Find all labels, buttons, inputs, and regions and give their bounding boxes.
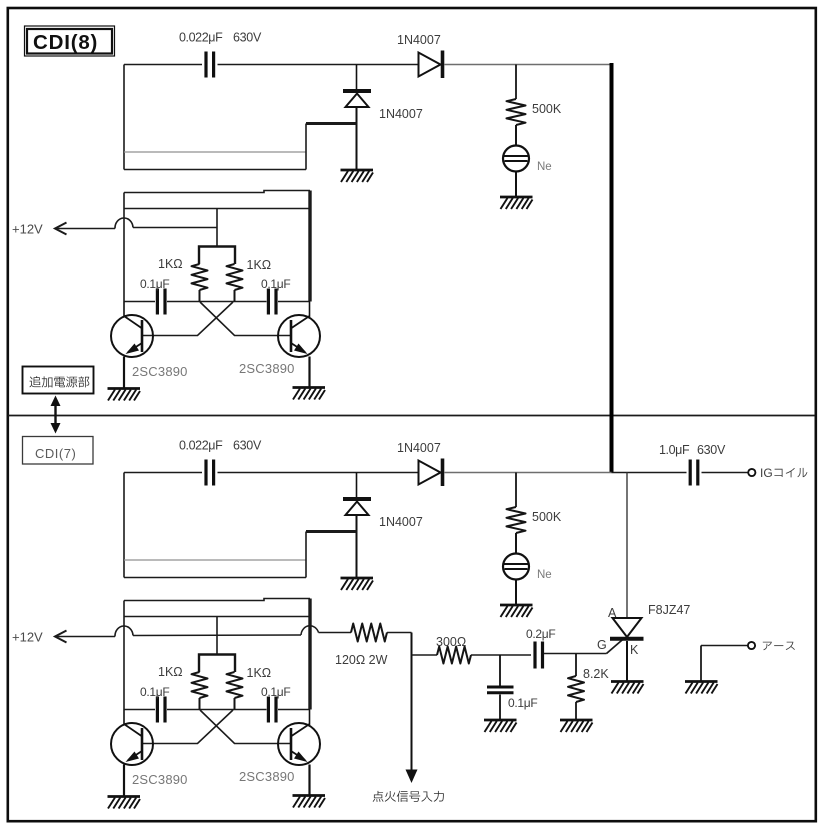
transistor Q right 2SC3890 CDI7 xyxy=(278,710,320,796)
terminal IG coil xyxy=(748,469,755,476)
svg-text:+12V: +12V xyxy=(12,630,43,645)
svg-text:1KΩ: 1KΩ xyxy=(247,258,272,272)
resistor 1K-ohm right CDI7 xyxy=(227,672,243,698)
neon lamp Ne CDI7 xyxy=(503,554,529,605)
svg-text:2SC3890: 2SC3890 xyxy=(239,769,295,784)
svg-text:120Ω 2W: 120Ω 2W xyxy=(335,653,388,667)
label 0.022uF 630V CDI8 xyxy=(179,31,262,45)
wire: collector rail CDI7 xyxy=(124,709,310,711)
resistor 8.2K xyxy=(568,654,584,720)
wire: left return loop CDI8 xyxy=(124,65,357,170)
wire: oscillator supply box CDI8 xyxy=(124,191,310,302)
label IG-coil katakana xyxy=(774,468,807,478)
label earth (a-su) xyxy=(763,642,795,651)
wire: left return loop CDI7 xyxy=(124,473,357,578)
block box: additional power unit label xyxy=(23,367,94,394)
svg-text:CDI(7): CDI(7) xyxy=(35,446,76,461)
capacitor 0.2uF coupling xyxy=(535,642,543,669)
svg-text:2SC3890: 2SC3890 xyxy=(132,772,188,787)
transistor Q right 2SC3890 CDI8 xyxy=(278,302,320,388)
svg-text:1KΩ: 1KΩ xyxy=(158,257,183,271)
wire +12V to oscillator CDI8 xyxy=(133,227,218,229)
svg-text:1.0μF: 1.0μF xyxy=(659,443,690,457)
wire: base-resistor bracket CDI7 xyxy=(199,655,235,673)
ground neon CDI8 xyxy=(500,197,533,209)
svg-text:0.1μF: 0.1μF xyxy=(140,277,169,291)
wire 300ohm to cap xyxy=(471,654,531,656)
svg-text:Ne: Ne xyxy=(537,161,552,173)
diode 1N4007 shunt CDI8 xyxy=(343,65,371,170)
wire cap to gate xyxy=(544,653,607,655)
wire: HV top rail CDI7 xyxy=(124,472,612,474)
svg-text:300Ω: 300Ω xyxy=(436,635,466,649)
label 0.022uF 630V CDI7 xyxy=(179,439,262,453)
terminal earth xyxy=(701,642,755,681)
transistor Q left 2SC3890 CDI8 xyxy=(111,302,153,389)
capacitor 0.1uF left CDI8 xyxy=(157,289,165,315)
wire: collector rail CDI8 xyxy=(124,301,310,303)
svg-text:500K: 500K xyxy=(532,510,562,524)
svg-text:IG: IG xyxy=(760,466,773,480)
resistor 500K CDI8 xyxy=(507,65,526,146)
neon lamp Ne CDI8 xyxy=(503,146,529,197)
svg-text:+12V: +12V xyxy=(12,222,43,237)
ground earth terminal xyxy=(685,682,718,694)
resistor 1K-ohm left CDI8 xyxy=(192,264,208,290)
svg-text:2SC3890: 2SC3890 xyxy=(239,361,295,376)
title box CDI(7) xyxy=(23,437,94,465)
svg-text:2SC3890: 2SC3890 xyxy=(132,364,188,379)
label 1.0uF 630V xyxy=(659,443,726,457)
label tenka-shingo-nyuryoku (ignition signal input) xyxy=(373,791,444,802)
svg-text:0.2μF: 0.2μF xyxy=(526,627,555,641)
svg-text:630V: 630V xyxy=(233,31,262,45)
capacitor 0.1uF shunt xyxy=(487,655,514,719)
svg-text:0.1μF: 0.1μF xyxy=(140,685,169,699)
resistor 120ohm 2W xyxy=(351,624,387,642)
svg-text:630V: 630V xyxy=(233,439,262,453)
ground emitter-left CDI7 xyxy=(108,797,141,809)
thyristor F8JZ47 xyxy=(610,473,644,681)
diode 1N4007 series CDI7 xyxy=(419,459,443,487)
node ignition input arrow xyxy=(406,633,418,784)
svg-text:1N4007: 1N4007 xyxy=(397,441,441,455)
section divider line xyxy=(8,415,815,417)
svg-text:0.1μF: 0.1μF xyxy=(508,696,537,710)
svg-text:1KΩ: 1KΩ xyxy=(158,665,183,679)
capacitor 0.1uF right CDI7 xyxy=(268,697,276,723)
svg-text:K: K xyxy=(630,643,639,657)
svg-text:A: A xyxy=(608,606,617,620)
svg-text:8.2K: 8.2K xyxy=(583,667,609,681)
resistor 1K-ohm right CDI8 xyxy=(227,264,243,290)
svg-text:500K: 500K xyxy=(532,102,562,116)
transistor Q left 2SC3890 CDI7 xyxy=(111,710,153,797)
title box CDI(8) xyxy=(25,26,115,56)
svg-text:0.1μF: 0.1μF xyxy=(261,685,290,699)
wire junction to 300ohm xyxy=(412,654,438,656)
diode 1N4007 shunt CDI7 xyxy=(343,473,371,578)
node +12V feed CDI8 xyxy=(55,218,133,235)
svg-text:F8JZ47: F8JZ47 xyxy=(648,603,690,617)
node HV bus CDI8 to CDI7 xyxy=(610,63,614,473)
ground emitter-right CDI8 xyxy=(293,388,326,400)
capacitor 0.1uF left CDI7 xyxy=(157,697,165,723)
ground neon CDI7 xyxy=(500,605,533,617)
wire +12V to trigger network CDI7 xyxy=(133,626,351,636)
capacitor 0.022uF 630V CDI8 xyxy=(206,52,214,78)
svg-text:1N4007: 1N4007 xyxy=(379,515,423,529)
wire: cross-coupling X CDI8 xyxy=(142,302,291,336)
resistor 1K-ohm left CDI7 xyxy=(192,672,208,698)
resistor 500K CDI7 xyxy=(507,473,526,554)
svg-text:1N4007: 1N4007 xyxy=(379,107,423,121)
svg-text:0.1μF: 0.1μF xyxy=(261,277,290,291)
node +12V feed CDI7 xyxy=(55,626,133,643)
svg-text:0.022μF: 0.022μF xyxy=(179,31,223,45)
svg-text:0.022μF: 0.022μF xyxy=(179,439,223,453)
wire: base-resistor bracket CDI8 xyxy=(199,247,235,265)
resistor 300ohm xyxy=(437,647,471,664)
wire: oscillator supply box CDI7 xyxy=(124,599,310,710)
ground 0.1uF shunt xyxy=(484,720,517,732)
svg-text:630V: 630V xyxy=(697,443,726,457)
wire: output rail to IG coil xyxy=(612,472,749,474)
wire 120ohm to junction xyxy=(387,632,412,634)
svg-text:Ne: Ne xyxy=(537,569,552,581)
capacitor 0.022uF 630V CDI7 xyxy=(206,460,214,486)
ground emitter-left CDI8 xyxy=(108,389,141,401)
wire: cross-coupling X CDI7 xyxy=(142,710,291,744)
label tsuika-dengen-bu (additional power section) xyxy=(29,376,89,387)
diode 1N4007 series CDI8 xyxy=(419,51,443,79)
svg-text:G: G xyxy=(597,638,607,652)
connector double arrow between sections xyxy=(51,396,61,434)
svg-text:1KΩ: 1KΩ xyxy=(247,666,272,680)
wire: HV top rail CDI8 xyxy=(124,64,612,66)
ground emitter-right CDI7 xyxy=(293,796,326,808)
ground thyristor cathode xyxy=(611,682,644,694)
ground shunt-diode CDI7 xyxy=(341,578,374,590)
svg-text:CDI(8): CDI(8) xyxy=(33,31,98,54)
ground shunt-diode CDI8 xyxy=(341,170,374,182)
ground 8.2K xyxy=(560,720,593,732)
capacitor 1.0uF 630V xyxy=(690,460,698,486)
svg-text:1N4007: 1N4007 xyxy=(397,33,441,47)
capacitor 0.1uF right CDI8 xyxy=(268,289,276,315)
